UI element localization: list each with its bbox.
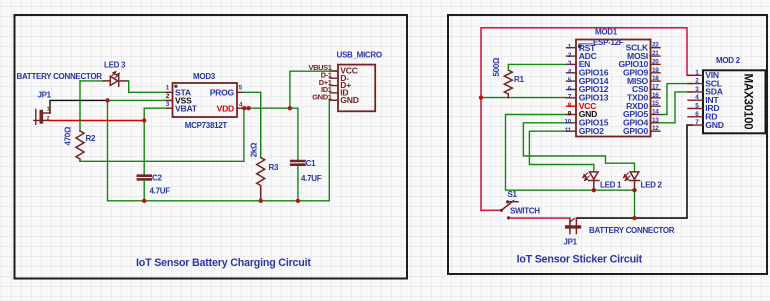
MOD2 MAX30100: [688, 69, 766, 133]
svg-text:18: 18: [652, 75, 659, 82]
wire green VDD down to C1: [297, 108, 299, 160]
svg-text:IoT Sensor Sticker Circuit: IoT Sensor Sticker Circuit: [517, 254, 643, 266]
wire green VSS junction to MOD3 VSS: [108, 99, 173, 101]
svg-text:21: 21: [652, 50, 659, 57]
wire green GND staircase to LED cathodes: [506, 115, 635, 191]
MOD3 IC MCP73812T: [166, 83, 244, 117]
svg-text:16: 16: [652, 92, 659, 99]
wire green GPIO15 to LED2: [523, 123, 634, 172]
pin numbers right: [652, 42, 659, 133]
wire green SDA GPIO4 to MOD2: [660, 92, 692, 123]
svg-text:GND1: GND1: [312, 92, 331, 101]
pin numbers left: [564, 44, 571, 135]
wire black battery- rail up to MOD2 GND: [578, 125, 693, 218]
svg-text:R1: R1: [514, 75, 524, 84]
svg-text:LED 1: LED 1: [600, 181, 622, 190]
svg-text:USB_MICRO: USB_MICRO: [337, 50, 382, 59]
capacitor C2: [138, 176, 151, 201]
wire VBAT vertical through junction down to C2: [144, 108, 172, 174]
wire green R1 top to EN: [508, 64, 566, 70]
svg-text:20: 20: [652, 58, 659, 65]
switch S1: [500, 200, 518, 219]
svg-text:17: 17: [652, 84, 659, 91]
capacitor C1: [291, 161, 304, 201]
junction dots: [105, 98, 300, 203]
svg-text:14: 14: [652, 109, 659, 116]
svg-text:MCP73812T: MCP73812T: [185, 121, 228, 130]
svg-text:19: 19: [652, 67, 659, 74]
wire green GPIO2 to LED1: [529, 131, 593, 171]
battery connector JP1: [567, 218, 580, 233]
wire crimson VCC bus top and left drop to switch: [481, 28, 692, 211]
svg-text:VBAT: VBAT: [175, 103, 198, 113]
svg-text:4.7UF: 4.7UF: [301, 174, 322, 183]
resistor R3: [257, 158, 265, 201]
svg-text:MOD1: MOD1: [595, 28, 618, 37]
svg-text:2kΩ: 2kΩ: [250, 142, 259, 157]
wire crimson junction to R1/GPIO13 row: [481, 97, 567, 99]
svg-text:C1: C1: [306, 159, 316, 168]
svg-text:10: 10: [564, 119, 571, 126]
wire red battery+ to VBAT junction: [50, 120, 144, 122]
svg-text:MAX30100: MAX30100: [742, 74, 754, 130]
svg-text:500Ω: 500Ω: [492, 57, 501, 76]
svg-text:VDD: VDD: [217, 103, 234, 113]
svg-text:C2: C2: [152, 174, 162, 183]
wire green LED3 anode down to R2: [79, 81, 81, 131]
wire crimson switch to JP1: [510, 217, 569, 219]
LED 1: [583, 172, 599, 190]
svg-text:15: 15: [652, 100, 659, 107]
svg-text:PROG: PROG: [210, 88, 235, 98]
svg-text:GPIO0: GPIO0: [623, 126, 648, 136]
junction dot LED2 rail: [632, 216, 636, 220]
resistor R2: [76, 131, 84, 161]
MOD1 ESP-12F: [564, 40, 660, 137]
wire crimson to switch: [481, 209, 501, 211]
wire green VBUS vertical and horizontal: [290, 71, 338, 108]
svg-text:JP1: JP1: [564, 237, 578, 246]
frame right sheet: [448, 15, 767, 274]
svg-text:GND: GND: [705, 120, 723, 130]
battery connector JP1: [34, 107, 50, 125]
junction dots LED bottoms: [592, 188, 596, 192]
svg-text:JP1: JP1: [38, 91, 52, 100]
wire green R2 bottom to VDD vertical: [80, 108, 244, 161]
svg-text:GND: GND: [340, 95, 358, 105]
wire green SCL GPIO5 to MOD2: [660, 84, 692, 115]
junction dot VCC/R1: [479, 95, 483, 99]
wire green PROG to R3: [244, 92, 261, 157]
svg-text:R2: R2: [86, 134, 96, 143]
LED D3: [104, 71, 128, 86]
svg-text:13: 13: [652, 117, 659, 124]
svg-text:470Ω: 470Ω: [64, 126, 73, 145]
wire green LED3 anode: [80, 80, 104, 82]
svg-text:LED 2: LED 2: [641, 181, 663, 190]
svg-text:11: 11: [565, 127, 572, 134]
frame left sheet: [15, 15, 408, 279]
wire green LED2 cathode down to rail: [634, 190, 636, 218]
wire green LED3 cathode to STA: [128, 81, 173, 92]
svg-text:LED 3: LED 3: [104, 61, 126, 70]
pin names left: [579, 43, 609, 136]
svg-text:22: 22: [652, 42, 659, 49]
svg-text:4.7UF: 4.7UF: [150, 187, 171, 196]
svg-text:GPIO2: GPIO2: [579, 126, 604, 136]
svg-text:MOD3: MOD3: [193, 72, 216, 81]
RST overline: [579, 43, 593, 45]
resistor R1: [504, 70, 512, 98]
pin VCC red stub: [567, 105, 577, 107]
pin names right: [618, 42, 649, 135]
svg-text:BATTERY CONNECTOR: BATTERY CONNECTOR: [589, 226, 675, 235]
wire ground U: junction down, bottom rail, up to USB GND: [108, 100, 339, 201]
svg-text:MOD 2: MOD 2: [716, 56, 741, 65]
wire green VDD rail: [244, 107, 298, 109]
svg-text:SWITCH: SWITCH: [510, 206, 540, 215]
svg-text:R3: R3: [269, 163, 279, 172]
wire JP1 pin1 black to VSS junction: [50, 100, 108, 113]
svg-text:ESP-12F: ESP-12F: [593, 38, 624, 47]
svg-text:12: 12: [652, 125, 659, 132]
USB_MICRO connector: [308, 50, 381, 111]
LED 2: [624, 172, 640, 190]
svg-text:BATTERY CONNECTOR: BATTERY CONNECTOR: [17, 72, 103, 81]
svg-text:S1: S1: [508, 190, 518, 199]
svg-text:IoT Sensor Battery Charging Ci: IoT Sensor Battery Charging Circuit: [136, 257, 311, 269]
